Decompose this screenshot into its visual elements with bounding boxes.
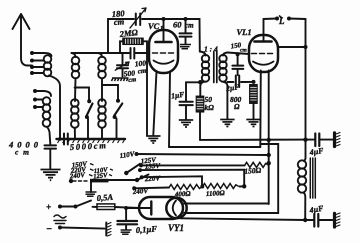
svg-text:0,5A: 0,5A — [96, 192, 113, 203]
svg-text:1100Ω: 1100Ω — [206, 189, 226, 198]
svg-text:400Ω: 400Ω — [174, 190, 192, 199]
svg-text:60: 60 — [173, 20, 182, 30]
svg-text:kΩ: kΩ — [205, 103, 215, 112]
svg-text:220V: 220V — [144, 174, 162, 183]
svg-text:2µF: 2µF — [225, 82, 240, 93]
svg-text:2MΩ: 2MΩ — [118, 27, 139, 39]
svg-text:cm: cm — [137, 67, 147, 76]
svg-text:cm: cm — [113, 16, 124, 27]
svg-text:4µF: 4µF — [308, 204, 325, 216]
svg-text:cm: cm — [128, 76, 137, 84]
svg-text:VY1: VY1 — [168, 223, 184, 233]
svg-text:VL1: VL1 — [237, 27, 252, 37]
svg-text:1µF: 1µF — [171, 90, 185, 101]
svg-text:cm: cm — [15, 148, 29, 157]
svg-text:cm: cm — [185, 22, 194, 30]
svg-text:cm: cm — [240, 48, 247, 54]
svg-text:135V: 135V — [145, 162, 162, 171]
svg-text:4µF: 4µF — [308, 146, 325, 157]
svg-text:1: 1 — [160, 25, 163, 32]
svg-text:VC: VC — [148, 21, 160, 31]
svg-text:0,1µF: 0,1µF — [135, 224, 157, 235]
svg-text:1 : 4: 1 : 4 — [204, 45, 218, 54]
svg-text:−: − — [46, 224, 52, 235]
svg-text:5000cm: 5000cm — [70, 140, 107, 152]
svg-text:150Ω: 150Ω — [244, 166, 262, 176]
svg-text:240V: 240V — [68, 171, 86, 181]
svg-text:240V: 240V — [132, 187, 150, 196]
svg-text:+: + — [46, 202, 51, 212]
svg-text:Ω: Ω — [234, 102, 240, 111]
svg-text:110V: 110V — [119, 150, 136, 160]
